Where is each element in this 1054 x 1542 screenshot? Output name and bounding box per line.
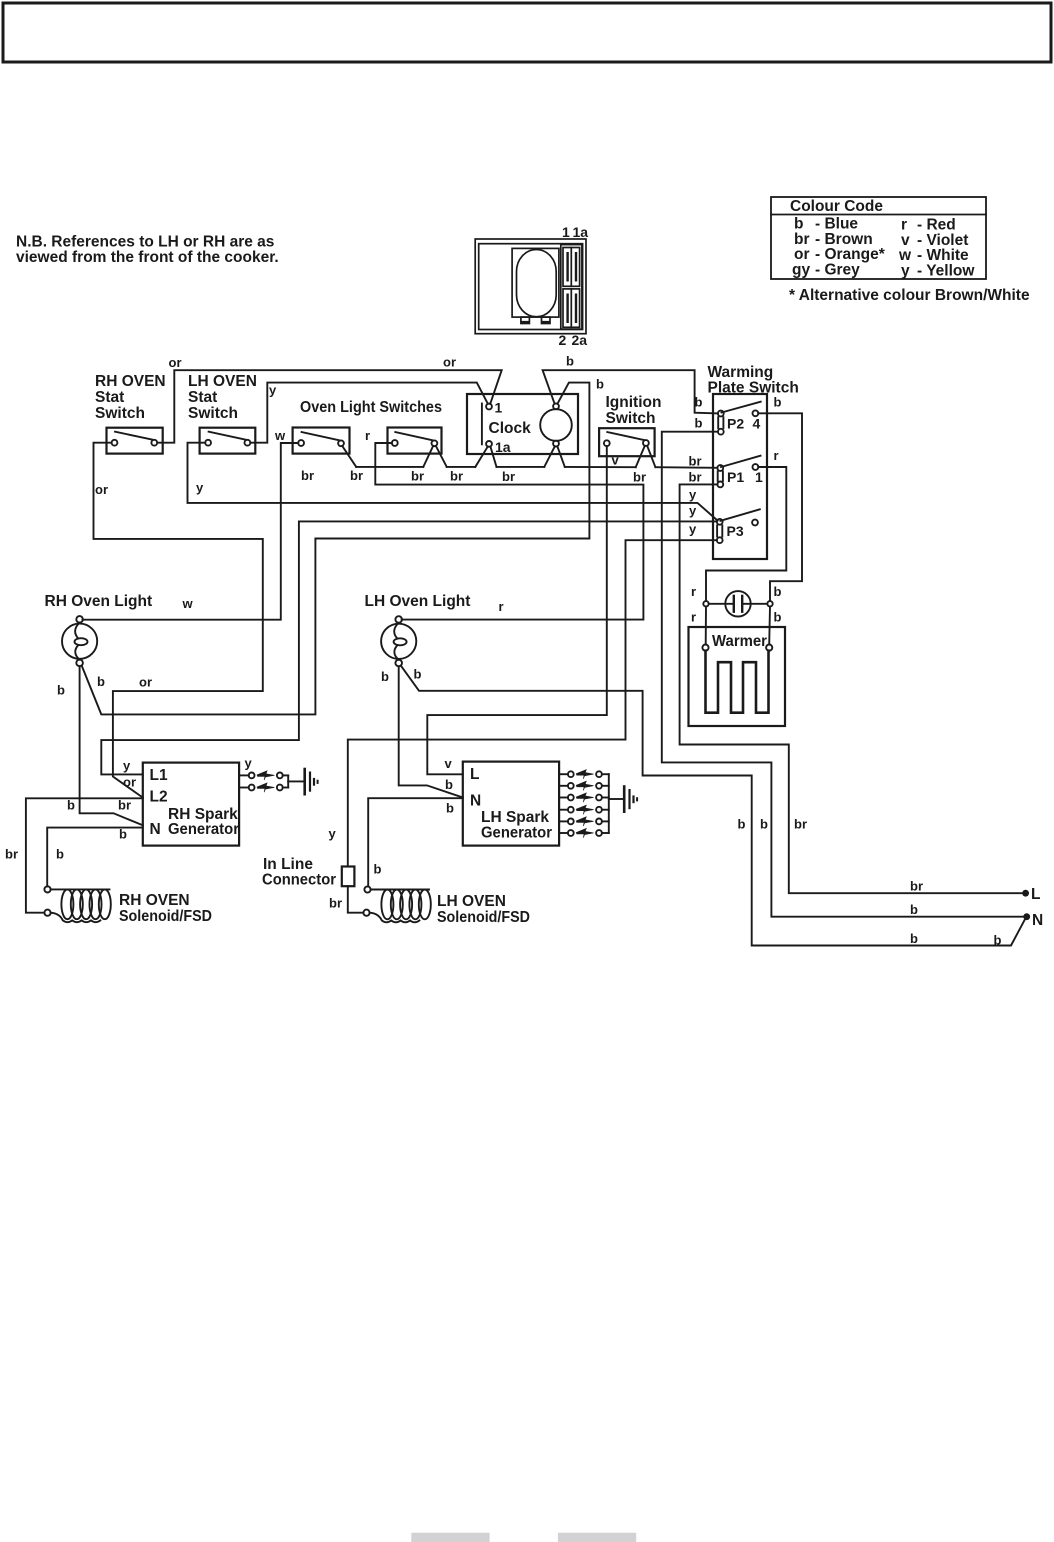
svg-text:br: br: [5, 847, 18, 862]
svg-text:r: r: [365, 428, 370, 443]
LH spark generator labels: [470, 766, 552, 842]
clock module icon: [475, 239, 586, 334]
RH spark electrode row 2: [239, 783, 288, 792]
wire b: LH spark generator N to LH oven solenoid top: [368, 798, 463, 886]
svg-text:N: N: [470, 793, 481, 810]
wire r: neon left to warmer left: [705, 607, 707, 645]
wire y: P3 bottom to in-line connector and LH oven solenoid: [348, 540, 717, 866]
wire 1 r: P1 right to warmer neon left: [706, 467, 786, 601]
ground chassis RH: [305, 769, 318, 794]
svg-text:b: b: [774, 584, 782, 599]
RH spark electrode row 1: [239, 771, 288, 780]
svg-text:viewed from the front of the c: viewed from the front of the cooker.: [16, 249, 279, 266]
svg-text:or: or: [169, 355, 182, 370]
svg-text:w: w: [274, 428, 286, 443]
svg-text:br: br: [689, 470, 702, 485]
wire or: RH stat left terminal to RH spark generator L2: [94, 443, 263, 798]
wire b: P2 bottom to N terminal: [662, 432, 1023, 917]
svg-text:y: y: [901, 262, 910, 279]
lamp RH oven light: [62, 616, 97, 666]
svg-text:y: y: [269, 383, 277, 398]
svg-text:1: 1: [562, 224, 570, 240]
svg-text:N: N: [150, 821, 161, 838]
terminal N: [1023, 913, 1030, 920]
svg-text:b: b: [738, 817, 746, 832]
svg-text:L: L: [470, 766, 479, 783]
wire or: RH stat right terminal to clock pin 1: [157, 370, 501, 443]
wire b: RH oven light bottom to RH spark generator N: [80, 666, 143, 825]
clock component box: [467, 394, 578, 454]
terminal L: [1022, 890, 1029, 897]
wire colour labels: [5, 354, 1002, 948]
svg-text:RH OVEN: RH OVEN: [95, 373, 166, 390]
svg-text:4: 4: [753, 416, 761, 432]
LH spark generator box: [463, 762, 559, 846]
LH spark electrode bracket: [608, 774, 610, 833]
svg-text:r: r: [691, 584, 696, 599]
svg-text:b: b: [445, 777, 453, 792]
wire b: RH spark generator N to RH oven solenoid top: [47, 828, 143, 887]
svg-text:Warming: Warming: [708, 364, 774, 381]
LH oven solenoid label: [437, 893, 530, 926]
svg-text:b: b: [910, 931, 918, 946]
svg-text:L: L: [1031, 886, 1040, 903]
wire b: RH oven solenoid bottom to RH spark generator L2: [26, 798, 143, 912]
svg-text:Stat: Stat: [95, 389, 124, 406]
svg-text:y: y: [196, 480, 204, 495]
wire y: LH stat right terminal to clock pin 1: [251, 383, 488, 443]
clock icon pin labels 2 2a: [559, 332, 588, 348]
in line connector: [342, 867, 355, 887]
svg-text:br: br: [794, 817, 807, 832]
switch LH oven stat: [200, 428, 256, 454]
svg-text:1: 1: [755, 469, 763, 485]
LH spark electrode row 5: [559, 817, 609, 826]
svg-text:b: b: [414, 667, 422, 682]
svg-text:Switch: Switch: [188, 405, 238, 422]
svg-text:1a: 1a: [573, 224, 589, 240]
svg-text:LH Oven Light: LH Oven Light: [365, 593, 471, 610]
svg-text:b: b: [566, 354, 574, 369]
wire b: clock motor top to RH oven light bottom: [82, 383, 590, 715]
LH spark electrode row 4: [559, 805, 609, 814]
LH spark electrode row 1: [559, 770, 609, 779]
svg-text:2: 2: [559, 332, 567, 348]
svg-text:Solenoid/FSD: Solenoid/FSD: [119, 908, 212, 925]
wire br bus: light switches, clock, ignition to P1 top: [342, 446, 717, 468]
svg-text:b: b: [760, 817, 768, 832]
svg-text:- Grey: - Grey: [815, 261, 860, 278]
RH oven stat switch label: [95, 373, 166, 422]
wire y: P3 top to RH spark generator L1: [101, 521, 717, 774]
svg-text:v: v: [612, 453, 620, 468]
svg-text:* Alternative colour Brown/Whi: * Alternative colour Brown/White: [789, 287, 1030, 304]
LH spark electrode row 6: [559, 828, 609, 837]
svg-text:RH OVEN: RH OVEN: [119, 892, 190, 909]
ignition switch label: [606, 394, 662, 427]
svg-text:- Yellow: - Yellow: [917, 262, 975, 279]
LH spark electrode row 3: [559, 793, 609, 802]
svg-text:Colour Code: Colour Code: [790, 198, 883, 215]
wire v: ignition switch to LH spark generator L: [427, 446, 607, 774]
svg-text:P3: P3: [727, 523, 744, 539]
svg-text:y: y: [245, 756, 253, 771]
svg-text:2a: 2a: [572, 332, 588, 348]
svg-text:P1: P1: [727, 469, 744, 485]
title block border: [3, 3, 1051, 62]
warming plate switch label: [708, 364, 799, 397]
svg-text:Solenoid/FSD: Solenoid/FSD: [437, 909, 530, 926]
inductor RH oven solenoid coil: [51, 889, 111, 922]
switch warming plate box: [713, 394, 767, 559]
svg-text:br: br: [329, 896, 342, 911]
warmer terminals: [702, 645, 772, 651]
heating element warmer: [706, 651, 769, 713]
svg-text:br: br: [450, 469, 463, 484]
svg-text:br: br: [502, 469, 515, 484]
svg-text:y: y: [689, 487, 697, 502]
svg-text:r: r: [499, 599, 504, 614]
svg-text:b: b: [596, 377, 604, 392]
LH oven solenoid terminals: [363, 886, 370, 915]
wire y: LH stat left terminal to P3 top: [188, 443, 718, 521]
RH spark electrode bracket: [287, 775, 289, 787]
svg-text:b: b: [994, 933, 1002, 948]
warmer box: [689, 627, 786, 726]
svg-text:b: b: [695, 416, 703, 431]
RH oven solenoid label: [119, 892, 212, 925]
svg-text:br: br: [633, 470, 646, 485]
svg-text:Switch: Switch: [95, 405, 145, 422]
svg-text:or: or: [123, 775, 136, 790]
svg-text:r: r: [774, 448, 779, 463]
svg-text:br: br: [411, 469, 424, 484]
ground chassis LH: [624, 787, 637, 812]
svg-text:or: or: [139, 675, 152, 690]
svg-text:y: y: [689, 503, 697, 518]
wire b: neon right to warmer right: [768, 607, 771, 645]
svg-text:gy: gy: [792, 261, 810, 278]
svg-text:Generator: Generator: [168, 821, 239, 838]
neon indicator: [703, 591, 772, 616]
LH spark electrode row 2: [559, 781, 609, 790]
clock icon pin labels 1 1a: [562, 224, 588, 240]
wire br: P1 bottom to L terminal: [680, 484, 1023, 893]
svg-text:N: N: [1032, 912, 1043, 929]
lamp LH oven light: [381, 616, 416, 666]
wire 4 b: P2 right to warmer neon right: [758, 413, 802, 601]
svg-text:Stat: Stat: [188, 389, 217, 406]
svg-text:b: b: [67, 798, 75, 813]
svg-text:LH OVEN: LH OVEN: [188, 373, 257, 390]
svg-text:Switch: Switch: [606, 410, 656, 427]
svg-text:br: br: [689, 454, 702, 469]
wire w: oven light switch 1 to RH oven light top: [83, 443, 299, 620]
svg-text:y: y: [689, 522, 697, 537]
wire r: oven light switch 2 to LH oven light top: [375, 443, 643, 620]
svg-text:1: 1: [495, 400, 503, 416]
svg-text:LH Spark: LH Spark: [481, 809, 549, 826]
wire b: LH oven light bottom to N terminal: [401, 666, 1025, 946]
svg-text:P2: P2: [727, 416, 744, 432]
switch oven light 2: [388, 428, 442, 454]
switch pole P2: [718, 402, 761, 435]
svg-text:Connector: Connector: [262, 872, 336, 889]
svg-text:b: b: [774, 610, 782, 625]
switch RH oven stat: [107, 428, 163, 454]
svg-text:br: br: [118, 798, 131, 813]
svg-text:br: br: [350, 468, 363, 483]
switch pole P1: [717, 456, 760, 488]
svg-text:br: br: [910, 879, 923, 894]
svg-text:r: r: [691, 610, 696, 625]
svg-text:b: b: [57, 683, 65, 698]
svg-text:Oven Light Switches: Oven Light Switches: [300, 399, 442, 416]
svg-text:y: y: [123, 758, 131, 773]
inductor LH oven solenoid coil: [370, 890, 431, 923]
svg-text:v: v: [445, 756, 453, 771]
svg-text:b: b: [446, 801, 454, 816]
svg-text:b: b: [56, 847, 64, 862]
svg-text:or: or: [95, 482, 108, 497]
svg-text:w: w: [182, 596, 194, 611]
svg-text:Warmer: Warmer: [712, 633, 767, 650]
note text N.B.: [16, 234, 279, 267]
wire b: clock motor top to P2 top: [543, 370, 718, 413]
svg-text:b: b: [119, 827, 127, 842]
svg-text:LH OVEN: LH OVEN: [437, 893, 506, 910]
RH oven solenoid terminals: [44, 886, 50, 916]
svg-text:b: b: [695, 395, 703, 410]
svg-text:Ignition: Ignition: [606, 394, 662, 411]
svg-text:N.B. References to LH or RH ar: N.B. References to LH or RH are as: [16, 234, 274, 251]
footer bar right: [558, 1533, 636, 1542]
svg-text:Clock: Clock: [489, 420, 532, 437]
svg-text:y: y: [329, 826, 337, 841]
svg-text:b: b: [774, 395, 782, 410]
colour code table: [771, 197, 986, 279]
svg-text:1a: 1a: [495, 439, 511, 455]
svg-text:b: b: [97, 674, 105, 689]
svg-text:Generator: Generator: [481, 825, 552, 842]
svg-text:In Line: In Line: [263, 856, 313, 873]
wire b: LH oven light bottom to LH spark generator N: [399, 666, 463, 797]
switch pole P3: [717, 509, 760, 543]
svg-text:b: b: [910, 902, 918, 917]
LH oven stat switch label: [188, 373, 257, 422]
footer bar left: [411, 1533, 489, 1542]
svg-text:b: b: [381, 669, 389, 684]
svg-text:or: or: [443, 355, 456, 370]
in line connector label: [262, 856, 336, 889]
switch ignition: [599, 428, 655, 456]
svg-text:b: b: [374, 862, 382, 877]
svg-text:br: br: [301, 468, 314, 483]
switch oven light 1: [293, 428, 350, 454]
svg-text:RH Oven Light: RH Oven Light: [45, 593, 153, 610]
RH spark generator box: [143, 763, 239, 846]
svg-text:L1: L1: [150, 767, 168, 784]
RH spark generator labels: [150, 767, 240, 838]
svg-text:L2: L2: [150, 789, 168, 806]
